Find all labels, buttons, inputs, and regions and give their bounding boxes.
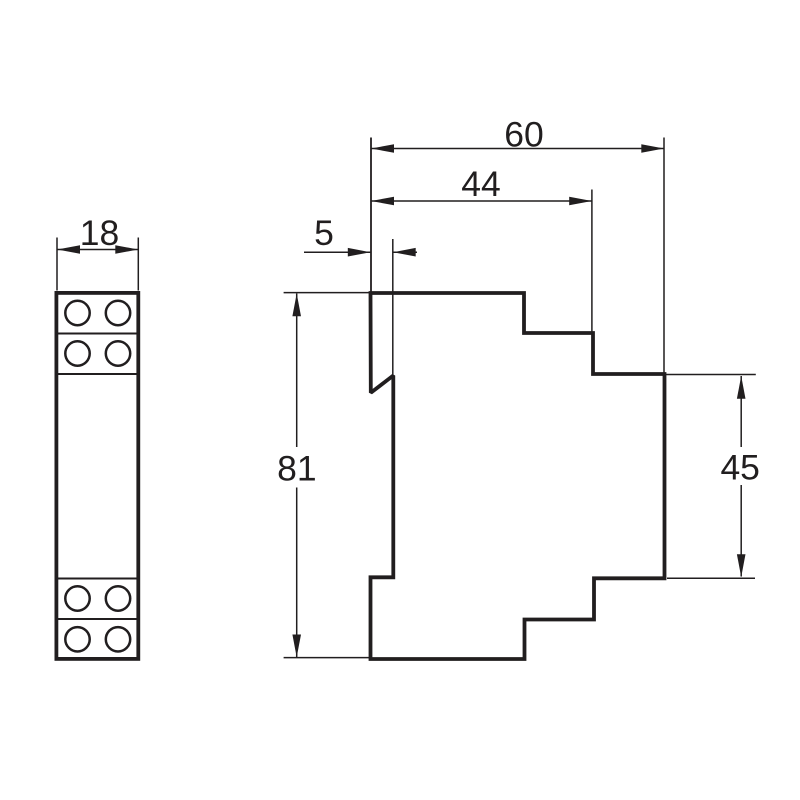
dim 5 extension line right [392,239,394,375]
terminal circle bottom row2 right [106,627,130,651]
dim 81 dimension line top segment [296,294,298,448]
dim 81 extension line top [284,292,370,294]
svg-text:45: 45 [720,447,760,487]
terminal circle bottom row1 right [106,586,130,610]
dim 18 extension line left [56,238,58,291]
dim 5 dimension line right tail [393,251,417,253]
front view outline [56,293,138,659]
dim 44 arrow left [371,197,394,206]
front view divider line top-2 [57,373,138,375]
terminal circle top row2 right [106,341,130,365]
dim 45 extension line bottom [667,577,755,579]
dim 60 arrow right [641,144,664,153]
front view divider line bottom-2 [57,618,138,620]
dim 45 dimension line bottom segment [740,485,742,577]
terminal circle bottom row2 left [65,627,89,651]
dim 60 extension line left [370,138,372,293]
dim 81 extension line bottom [284,657,370,659]
terminal circle top row1 right [106,301,130,325]
dim 18 arrow left [57,245,80,254]
dim 81 arrow down [292,635,301,658]
dim 5 arrow right [393,248,416,257]
svg-text:5: 5 [314,213,334,253]
terminal circle bottom row1 left [65,586,89,610]
front view divider line top-1 [57,333,138,335]
dim 18 extension line right [137,238,139,291]
dim 5 dimension line left tail [304,251,371,253]
terminal circle top row2 left [65,341,89,365]
dim 45 extension line top [666,374,756,376]
dim 18 dimension line [57,249,138,251]
side view profile [371,293,665,659]
dim 60 dimension line [371,148,664,150]
dim 5 arrow left [348,248,371,257]
dim 81 dimension line bottom segment [296,488,298,658]
dim 18 arrow right [115,245,138,254]
svg-text:18: 18 [80,213,120,253]
svg-text:60: 60 [504,114,544,154]
dim 44 dimension line [371,200,592,202]
front view divider line bottom-1 [57,578,138,580]
dim 45 dimension line top segment [740,376,742,447]
dim 81 arrow up [292,294,301,317]
dim 60 arrow left [371,144,394,153]
svg-text:81: 81 [277,448,317,488]
dim 60 extension line right [663,138,665,373]
dim 44 arrow right [569,197,592,206]
svg-text:44: 44 [461,164,501,204]
terminal circle top row1 left [65,301,89,325]
dim 44 extension line right [591,190,593,332]
dim 45 arrow up [737,376,746,399]
dim 45 arrow down [737,554,746,577]
